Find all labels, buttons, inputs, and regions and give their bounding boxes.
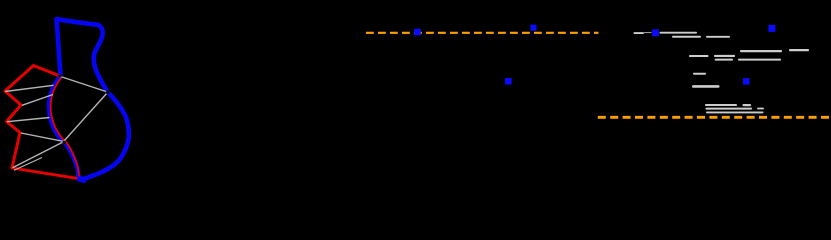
gray leader line L3 to J2 (13, 142, 64, 168)
text bar E (740, 50, 782, 52)
gray leader line P to J2 (64, 93, 108, 142)
gray leader line R1 to arc (22, 95, 53, 106)
blue marker S2 (530, 25, 536, 31)
gray leader line L1 to arc (5, 85, 54, 91)
blue marker S4 (652, 29, 659, 36)
text bar K (693, 73, 706, 75)
blue marker S5 (743, 78, 750, 85)
text bar P3 (757, 108, 764, 110)
orange dashed line 1 (366, 32, 599, 34)
text bar G2 (689, 55, 709, 57)
junction notch P (106, 90, 110, 94)
stomach neck top edge (57, 19, 99, 25)
blue marker S3 (505, 78, 512, 85)
text bar I2 (715, 59, 733, 61)
text bar Q (706, 112, 764, 114)
text bar N (743, 104, 752, 106)
text bar M (705, 104, 737, 106)
text bar B (660, 32, 698, 34)
red zigzag vessel polyline (5, 66, 76, 179)
gray leader line L2 to arc (7, 118, 50, 122)
junction notch J2 (62, 141, 66, 145)
text bar O (706, 108, 753, 110)
stomach neck left edge (57, 19, 61, 74)
text bar D (706, 36, 730, 38)
text bar block1 stub (634, 32, 645, 34)
text bar F (789, 49, 809, 51)
gray leader line R2 to J2 (21, 133, 63, 141)
stomach right edge (neck into greater curvature) (94, 25, 108, 92)
text bar C (672, 36, 701, 38)
text bar L (692, 85, 720, 88)
stomach lesser curvature (left arc, blue) (49, 77, 79, 177)
text bar J2b (738, 59, 781, 61)
leader line to S4 (644, 32, 652, 34)
red line inside lesser curvature (51, 78, 79, 175)
blue marker S6 (768, 25, 775, 32)
gray leader line L3b short (14, 158, 42, 171)
junction notch J1 (58, 75, 61, 77)
gray leader line J1 to P (61, 77, 108, 93)
orange dashed line 2 (598, 116, 831, 119)
stomach greater curvature (big round bottom) (82, 92, 129, 180)
text bar H2 (714, 55, 735, 57)
blue marker S1 (414, 29, 421, 36)
bottom junction blob (79, 179, 84, 180)
